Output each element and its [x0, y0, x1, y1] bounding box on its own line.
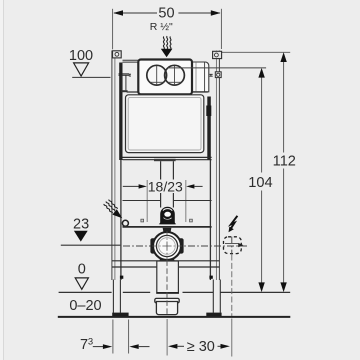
- flush button right: [165, 65, 185, 85]
- frame crossbar under panel: [123, 156, 212, 158]
- outlet crosshair: [152, 245, 182, 247]
- outlet bottom nub: [159, 256, 174, 261]
- svg-text:23: 23: [73, 216, 89, 232]
- screw mark right: [209, 74, 212, 76]
- cistern tank inner right edge: [204, 63, 206, 92]
- filling valve circle on left rail: [122, 220, 128, 226]
- svg-text:R ½": R ½": [150, 21, 173, 33]
- anchor plate right: [190, 219, 193, 222]
- lightning bolt: [230, 216, 237, 230]
- dimension 104 up arrowhead: [258, 68, 264, 78]
- level triangle 23 (filled): [74, 231, 88, 242]
- svg-text:50: 50: [158, 6, 174, 22]
- left leg: [112, 280, 114, 313]
- electrical center extension below box: [231, 255, 233, 317]
- dimension 112 line: [283, 58, 285, 153]
- frame left rail inner flange: [119, 63, 122, 161]
- electrical box cable arrow: [225, 242, 238, 244]
- service panel: [126, 95, 204, 153]
- flush pipe: [160, 161, 162, 179]
- outlet bend middle circle: [156, 235, 177, 256]
- right leg clamp: [209, 276, 212, 279]
- outlet bend inner circle: [159, 238, 176, 255]
- left foot plate: [112, 313, 128, 317]
- frame crossbar above outlet: [123, 200, 161, 202]
- left leg clamp: [120, 276, 123, 279]
- frame crossbar below flush bend: [123, 226, 212, 228]
- dimension 50 extension line left: [112, 9, 114, 50]
- svg-text:0–20: 0–20: [69, 298, 101, 314]
- outlet flange left: [150, 238, 154, 253]
- drain socket body: [156, 302, 177, 315]
- dimension 50 extension line right: [220, 9, 222, 49]
- svg-text:≥ 30: ≥ 30: [187, 339, 215, 355]
- dimension 18/23 right arrow: [186, 184, 194, 188]
- outlet bend outer circle: [153, 232, 181, 260]
- wall bracket top right: [213, 51, 222, 58]
- flush plate frame box: [138, 60, 192, 95]
- svg-text:18/23: 18/23: [148, 178, 183, 194]
- dimension 104 down arrowhead: [258, 282, 264, 292]
- hand waves arrow: [112, 209, 122, 218]
- svg-text:7: 7: [80, 337, 88, 353]
- floor line: [58, 316, 290, 318]
- frame crossbar double below outlet: [112, 260, 220, 262]
- water supply stub pipe: [121, 75, 123, 90]
- frame right rail outer lines: [218, 51, 220, 281]
- wall bracket right second: [215, 72, 221, 78]
- level triangle 100 (open): [74, 63, 89, 76]
- flush button center lines: [156, 66, 158, 85]
- water supply arrow: [161, 49, 173, 57]
- dimension 18/23 left arrow: [123, 185, 139, 187]
- cistern tank body: [139, 62, 209, 92]
- fixing rod left: [146, 180, 148, 222]
- frame top crossbar: [123, 59, 140, 61]
- flexible hose waves symbol: [163, 36, 171, 49]
- svg-text:0: 0: [78, 261, 86, 277]
- cistern bottom line: [127, 91, 208, 93]
- drain center line vertical: [166, 260, 168, 315]
- svg-text:3: 3: [88, 336, 93, 347]
- service panel inner line: [128, 97, 201, 150]
- hand waves symbol: [103, 199, 117, 214]
- dimension 73 left arrow: [93, 346, 103, 348]
- dimension 50 line: [114, 12, 157, 14]
- dimension >=30 left arrowhead: [168, 344, 177, 349]
- dimension 73 right arrow: [129, 344, 138, 349]
- outlet center line horizontal: [123, 245, 248, 247]
- dimension >=30 right arrowhead: [218, 345, 221, 347]
- svg-text:104: 104: [248, 175, 272, 191]
- wall bracket top left: [113, 51, 122, 58]
- frame right rail inner flange: [207, 97, 211, 161]
- dimension 104 line: [261, 73, 263, 173]
- dimension 112 top reference line: [218, 51, 290, 53]
- svg-text:112: 112: [273, 154, 296, 170]
- electrical box vertical center line: [231, 237, 233, 255]
- electrical connection box (dashed): [224, 237, 242, 254]
- anchor plate left: [141, 219, 144, 222]
- flush pipe collar: [154, 159, 176, 161]
- dimension 50 left arrowhead: [113, 10, 123, 15]
- level triangle 0 (open): [75, 278, 88, 289]
- svg-text:100: 100: [69, 48, 93, 64]
- level line 0 (finished floor): [59, 291, 112, 293]
- outlet flange right: [179, 238, 183, 253]
- water supply bracket left: [119, 74, 130, 75]
- dimension 50 right arrowhead: [211, 10, 221, 15]
- page edge line: [3, 0, 4, 360]
- flush button left: [147, 65, 167, 85]
- right foot plate: [206, 313, 221, 317]
- dimension 112 down arrowhead: [280, 282, 286, 292]
- right leg: [212, 280, 214, 313]
- outlet pipe down: [157, 261, 179, 293]
- drain socket cap: [155, 298, 179, 303]
- drain center extension below floor: [166, 319, 168, 356]
- dimension 112 up arrowhead: [280, 52, 286, 62]
- outlet top nub: [163, 228, 172, 233]
- page edge strip: [0, 0, 3, 360]
- dimension 73 extension lines: [112, 320, 114, 354]
- fixing rod right: [185, 180, 187, 222]
- flush bend: [160, 207, 175, 225]
- frame left rail outer lines: [111, 51, 113, 281]
- dimension 104 reference line from flush buttons: [168, 67, 267, 69]
- level line 100: [72, 76, 110, 78]
- level line 23: [61, 244, 121, 246]
